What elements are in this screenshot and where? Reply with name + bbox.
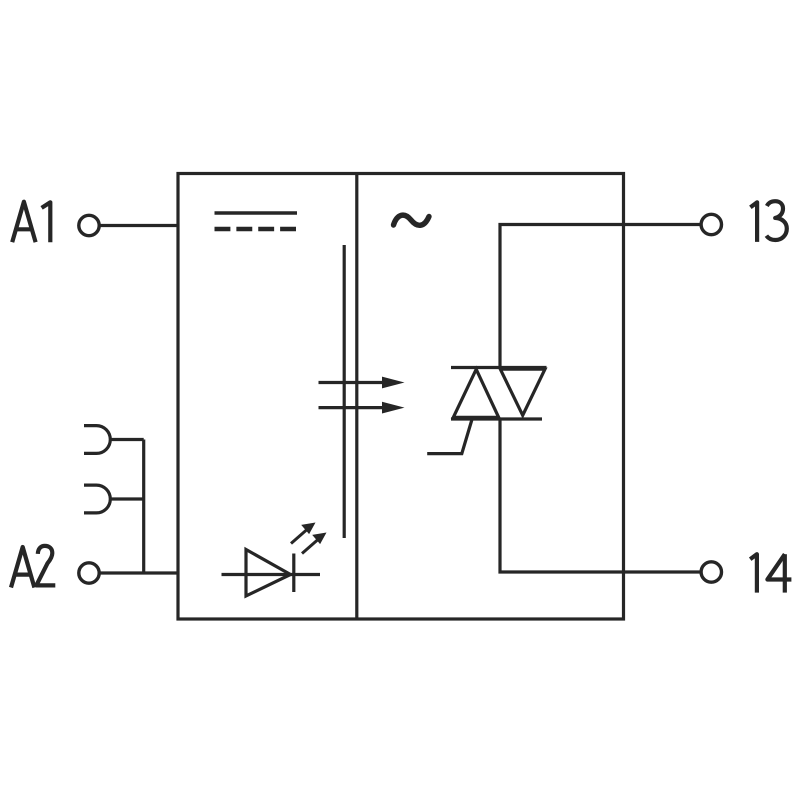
wire A2 to box — [101, 571, 179, 574]
triac lower terminal line — [451, 417, 542, 420]
LED emission arrow 2 head — [312, 533, 326, 545]
terminal A2 — [79, 563, 99, 583]
terminal 13 — [701, 214, 721, 234]
DC symbol solid line — [215, 211, 298, 215]
isolation barrier line — [343, 245, 346, 538]
wire A1 to box — [101, 224, 179, 227]
wire clamp 2 to bus — [110, 497, 143, 500]
enclosure box — [178, 174, 624, 620]
clamp contact 1 — [84, 426, 110, 454]
terminal 14 — [701, 562, 721, 582]
optocoupler arrow 1 head — [382, 377, 405, 389]
triac gate wire — [427, 420, 472, 454]
wire node 14 branch — [500, 419, 700, 572]
LED emission arrow 2 shaft — [302, 540, 318, 554]
clamp contact 2 — [84, 485, 110, 513]
label 13 — [750, 201, 786, 242]
LED triangle — [246, 550, 291, 597]
input/output divider wall — [355, 174, 358, 620]
triac right triangle — [500, 369, 545, 415]
LED emission arrow 1 shaft — [291, 530, 307, 544]
wire clamp 1 to bus — [110, 438, 143, 441]
optocoupler arrow 1 shaft — [319, 381, 386, 384]
clamp bus wire — [142, 440, 145, 574]
optocoupler arrow 2 shaft — [319, 406, 386, 409]
LED emission arrow 1 head — [301, 523, 315, 535]
label 14 — [750, 554, 791, 592]
wire node 13 branch — [500, 225, 700, 368]
terminal A1 — [79, 215, 99, 235]
optocoupler arrow 2 head — [382, 402, 405, 414]
DC symbol dashed line — [215, 227, 297, 232]
label A1 — [12, 202, 50, 243]
AC symbol tilde — [394, 215, 430, 225]
LED anode/cathode wire — [222, 573, 321, 576]
LED cathode bar — [292, 554, 295, 593]
triac left triangle — [453, 369, 498, 417]
triac upper terminal line — [451, 366, 547, 369]
label A2 — [11, 546, 55, 588]
